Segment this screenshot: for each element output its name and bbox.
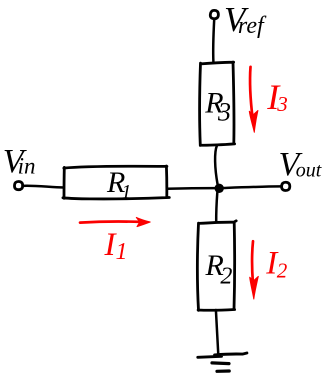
svg-text:Vin: Vin [3, 143, 36, 180]
ground [198, 353, 247, 357]
resistor R1 box [63, 166, 169, 199]
wire R1 to node [167, 187, 215, 190]
terminal Vout [282, 182, 290, 190]
svg-text:I2: I2 [265, 246, 288, 283]
svg-text:Vref: Vref [224, 0, 267, 39]
current arrow I2 [251, 241, 255, 283]
svg-text:R3: R3 [204, 87, 231, 127]
svg-text:R2: R2 [205, 249, 233, 290]
svg-text:Vout: Vout [279, 146, 322, 183]
wire Vref to R3 [213, 20, 214, 62]
resistor R2 box [197, 221, 236, 310]
wire R2 to ground [216, 310, 218, 355]
wire R3 to node [215, 146, 218, 185]
svg-text:I3: I3 [266, 77, 288, 117]
current arrow I3 [250, 67, 253, 118]
wire Vin to R1 [23, 186, 64, 188]
junction node [215, 184, 224, 193]
terminal Vref [210, 10, 218, 18]
current arrow I1 [80, 222, 141, 223]
wire node to R2 [216, 193, 217, 223]
svg-text:I1: I1 [104, 227, 128, 265]
svg-text:R1: R1 [106, 166, 131, 203]
resistor R3 box [200, 62, 235, 145]
terminal Vin [14, 181, 22, 189]
wire node to Vout [224, 186, 281, 188]
